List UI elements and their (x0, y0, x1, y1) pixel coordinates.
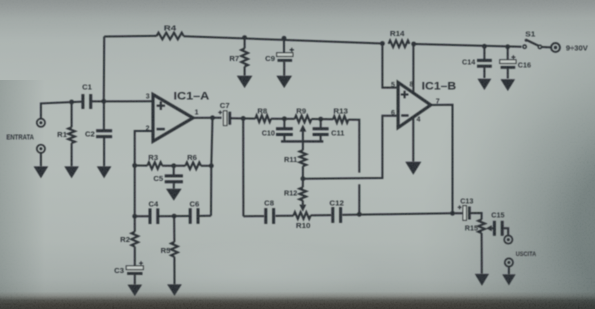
node output junction (210, 115, 215, 120)
plus sign C7 (218, 111, 222, 115)
ground below R5 (167, 284, 182, 295)
wire pin7 output (431, 105, 453, 214)
ground below C16 (501, 79, 516, 91)
resistor R2 (134, 216, 136, 232)
wire C4 to C6 (158, 215, 190, 217)
wire C4 row left (135, 215, 150, 217)
wire R8 to R9 (271, 118, 295, 120)
capacitor C6 (189, 208, 192, 224)
resistor R5 (173, 216, 175, 242)
capacitor C9 (283, 38, 285, 53)
wire input ground stub (40, 153, 42, 166)
wire C13 to R15 (471, 213, 482, 220)
node bottom row pin7 junction (450, 211, 455, 216)
capacitor C15 (493, 221, 496, 236)
trimmer R9 (295, 116, 312, 123)
wire C7 to R8 (231, 117, 256, 119)
node bottom row R13 junction (357, 212, 362, 217)
plus sign C13 (458, 205, 462, 209)
wire feedback to pin6 (303, 116, 398, 179)
capacitor C5 (173, 166, 175, 175)
capacitor C1 (81, 94, 84, 109)
wire R6 right (201, 165, 211, 167)
wire rail drop (103, 37, 105, 102)
capacitor C13 (463, 206, 466, 221)
wire pin5 to rail (382, 44, 398, 88)
node R3-R6 junction (171, 163, 176, 168)
wire R13 column lower (358, 184, 360, 214)
wire output to R6 right (211, 118, 213, 216)
wire pin2 feedback (135, 131, 153, 166)
wire output ground stub (508, 267, 510, 275)
wire pin4 down (412, 117, 414, 161)
wiper arrow R10 (299, 205, 306, 212)
wire C6 right (198, 215, 211, 217)
ground below C3 (128, 285, 143, 296)
wiper arrow R15 (486, 225, 492, 231)
resistor R6 (185, 163, 201, 170)
node C2 junction (101, 99, 106, 104)
node R11-R12 junction (301, 176, 306, 181)
wire top supply rail (104, 35, 156, 38)
ground below input (34, 166, 49, 178)
plus input mark U1A (157, 102, 165, 110)
capacitor C4 (149, 208, 152, 224)
wire C8 to R10 (275, 215, 293, 217)
capacitor C10 (283, 119, 285, 128)
resistor R4 (157, 33, 184, 40)
node R8-R9 junction (282, 116, 287, 121)
capacitor C7 (224, 111, 227, 126)
wire C15 to output (502, 228, 508, 235)
ground below C14 (478, 79, 492, 90)
op-amp U1A triangle (153, 95, 193, 142)
op-amp U1B triangle (398, 82, 431, 127)
switch S1 (523, 45, 526, 48)
trimmer R10 (294, 212, 311, 219)
ground below C2 (97, 166, 112, 178)
ground below C9 (276, 76, 292, 88)
capacitor C14 (483, 46, 485, 59)
node C7-R8 junction (241, 116, 246, 121)
wire C1 to opamp (91, 100, 153, 102)
resistor R13 (333, 116, 348, 123)
wire opamp output (193, 117, 222, 119)
wire C3 down (134, 275, 136, 285)
resistor R7 (244, 38, 246, 49)
wire R3 to R6 (162, 165, 185, 167)
resistor R11 (302, 141, 304, 150)
minus input mark U1A (157, 128, 165, 130)
node R9-R13 junction (318, 117, 323, 122)
plus sign C3 (139, 261, 143, 265)
node R6 right junction (209, 163, 214, 168)
resistor R3 (147, 162, 162, 169)
capacitor C12 (331, 207, 334, 223)
ground below R7 (237, 76, 253, 88)
plus sign C16 (511, 55, 515, 59)
minus input mark U1B (401, 114, 408, 116)
wiper arrow R9 (300, 125, 307, 132)
potentiometer R15 (478, 220, 485, 234)
node R3 left junction (132, 163, 137, 168)
capacitor C16 (507, 47, 509, 60)
ground below pin4 (405, 162, 421, 175)
wire output column down (242, 118, 244, 216)
capacitor C3 (126, 266, 143, 270)
node rail-C16 junction (505, 44, 510, 49)
wire R13 to column (348, 120, 359, 173)
resistor R8 (255, 115, 271, 122)
terminal 9-30V (551, 43, 560, 52)
node rail-C14 junction (482, 44, 487, 49)
node rail-C9 junction (282, 36, 287, 41)
terminal output signal (504, 236, 512, 244)
wire left column (134, 166, 136, 217)
resistor R1 (71, 102, 73, 127)
plus input mark U1B (401, 91, 409, 99)
terminal input signal (37, 119, 45, 127)
resistor R14 (389, 41, 410, 48)
capacitor C8 (264, 208, 267, 224)
ground below R1 (64, 166, 79, 178)
plus sign C9 (290, 48, 294, 52)
ground below output (502, 274, 515, 285)
node rail-R7 junction (242, 35, 247, 40)
capacitor C2 (103, 101, 105, 130)
node C4 row left junction (132, 214, 137, 219)
wire cap bar (281, 140, 323, 142)
wire input to C1 (41, 102, 83, 119)
wire bottom row left (243, 215, 264, 217)
terminal output ground (505, 258, 513, 266)
wire pin8 to rail (412, 44, 414, 93)
node R1 top (69, 100, 74, 105)
node rail-pin8 junction (411, 42, 416, 47)
node C4-C6 junction (172, 214, 177, 219)
wire C12 to C13 (342, 213, 463, 215)
node rail-pin5 junction (380, 41, 385, 46)
wire R9 to R13 (312, 118, 334, 120)
ground below C5 (166, 189, 182, 201)
wire R10 to C12 (311, 214, 332, 216)
resistor R12 (302, 179, 304, 188)
terminal input ground (37, 145, 45, 153)
ground below R15 (475, 274, 489, 286)
wire R3 row left (135, 165, 148, 167)
capacitor C11 (320, 119, 322, 128)
